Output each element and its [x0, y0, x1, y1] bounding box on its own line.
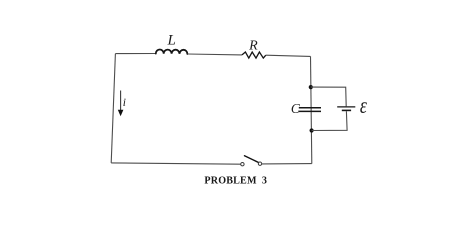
wire battery branch top [311, 87, 346, 106]
svg-text:i: i [123, 97, 126, 109]
capacitor C plates [299, 108, 321, 112]
wire bottom right [262, 163, 312, 165]
current arrow i [120, 91, 122, 111]
svg-text:L: L [167, 33, 176, 49]
battery EMF source [337, 106, 355, 108]
wire right side [311, 56, 312, 163]
resistor R [242, 52, 266, 58]
svg-text:C: C [291, 101, 301, 116]
wire left side [111, 54, 115, 163]
wire battery branch bottom [312, 111, 348, 130]
svg-text:PROBLEM 3: PROBLEM 3 [204, 176, 267, 187]
wire between L and R [187, 53, 242, 56]
svg-text:R: R [248, 38, 258, 53]
inductor L [156, 49, 188, 54]
node bottom junction [310, 128, 314, 132]
node top junction [309, 85, 313, 89]
switch terminal right [258, 162, 261, 165]
switch lever [245, 156, 259, 163]
label EMF [360, 92, 368, 119]
switch terminal left [241, 163, 244, 166]
wire top-left segment [115, 53, 155, 55]
wire bottom left [111, 163, 241, 164]
wire R to top-right corner [266, 55, 311, 56]
svg-text:ε: ε [360, 92, 368, 119]
